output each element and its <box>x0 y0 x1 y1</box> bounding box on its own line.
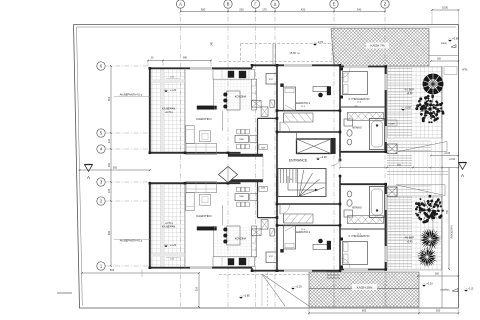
grid bubble A <box>176 0 184 8</box>
roof overhang dashed line upper <box>219 61 340 63</box>
lower kitchen top counter <box>213 257 255 267</box>
bottom hatched ramp (klisi 10%) <box>309 272 419 307</box>
grid axis 4 dash-dot line <box>106 148 150 150</box>
svg-text:200: 200 <box>239 7 244 11</box>
dashed planting strip top right <box>444 67 457 75</box>
svg-text:ΤΡΑΠ.: ΤΡΑΠ. <box>239 138 245 141</box>
upper dining table <box>235 136 249 143</box>
lower bedroom2 bed <box>284 226 296 250</box>
svg-text:κλίση: κλίση <box>441 42 447 45</box>
upper master bed <box>343 72 368 95</box>
svg-text:ΑΝ.ΒΕΡ.: ΑΝ.ΒΕΡ. <box>405 236 415 240</box>
dashed vertical at ramp <box>267 272 269 306</box>
upper bed blanket diagonal <box>285 105 294 110</box>
tree 3 (leafy clumps) lower right <box>418 204 421 207</box>
svg-text:135: 135 <box>107 188 111 193</box>
dashed service lines bottom <box>333 272 335 307</box>
svg-text:+2.20: +2.20 <box>295 284 302 288</box>
right walkway horizontal lines mid lower <box>388 185 432 187</box>
right upper small dims <box>431 155 459 157</box>
left mid dimension row <box>80 169 150 171</box>
grid axis 1 dash-dot line <box>106 265 150 267</box>
upper island stools <box>223 93 227 97</box>
lower pantry strip <box>252 226 257 257</box>
stair arrow <box>288 176 315 190</box>
svg-text:+1.20: +1.20 <box>170 244 177 247</box>
svg-text:ΚΑΘΙΣΤΙΚΟ: ΚΑΘΙΣΤΙΚΟ <box>196 214 212 218</box>
upper column blobs <box>149 67 152 70</box>
svg-text:+0.90: +0.90 <box>449 158 456 161</box>
upper kitchen island <box>227 91 240 110</box>
lower master bedroom door arc <box>340 258 350 268</box>
bottom right dim 300 row <box>418 275 459 277</box>
svg-text:170: 170 <box>262 7 267 11</box>
lower radiator label box <box>259 186 267 191</box>
grid bubble Z <box>381 0 389 8</box>
stair mid wall <box>298 182 327 184</box>
svg-text:ΚΟΥΖΙΝΑ: ΚΟΥΖΙΝΑ <box>235 237 246 241</box>
left dimension chain <box>110 66 112 266</box>
svg-text:ΔΩΜΑΤΙΟ 2: ΔΩΜΑΤΙΟ 2 <box>296 101 311 105</box>
svg-text:500: 500 <box>107 96 111 101</box>
lower tv sideboard dark bar <box>197 227 217 231</box>
grid axis Z dash-dot line <box>384 8 386 309</box>
svg-text:ΚΛ.ΒΕΡ.: ΚΛ.ΒΕΡ. <box>405 88 415 92</box>
top hatched ramp (klisi 7%) <box>331 29 429 67</box>
grid bubble 3 <box>97 178 105 186</box>
grid bubble Γ <box>251 0 259 8</box>
svg-text:ΚΛ.ΒΕΡΑΝ.: ΚΛ.ΒΕΡΑΝ. <box>162 106 176 110</box>
upper coffee table <box>200 131 211 142</box>
svg-text:ΑΠΘ.: ΑΠΘ. <box>462 69 468 72</box>
svg-text:+0.60: +0.60 <box>405 107 412 109</box>
site boundary inner line <box>77 26 457 28</box>
svg-text:Κ.ΥΠΝΟΔΩΜΑΤΙΟ: Κ.ΥΠΝΟΔΩΜΑΤΙΟ <box>349 98 370 101</box>
lower kitchen sink dark <box>228 259 234 266</box>
grid axis Δ dash-dot line <box>274 8 276 309</box>
svg-text:A: A <box>461 173 464 178</box>
upper utility x-boxes <box>252 100 261 107</box>
svg-text:ΚΑΘΙΣΤΙΚΟ: ΚΑΘΙΣΤΙΚΟ <box>196 117 212 121</box>
elevator side dark wall <box>331 138 336 154</box>
road mark outside boundary <box>57 292 72 294</box>
svg-text:B: B <box>227 2 230 7</box>
svg-text:ΚΛ.ΒΕΡΑΝ.: ΚΛ.ΒΕΡΑΝ. <box>162 225 176 229</box>
svg-text:+0.70 μ: +0.70 μ <box>165 111 174 114</box>
bottom vertical dim 310 <box>198 273 200 307</box>
svg-text:A: A <box>179 2 182 7</box>
svg-text:ΨΥΓ: ΨΥΓ <box>269 79 274 81</box>
right upper dim 300 <box>431 60 459 62</box>
upper radiator label box <box>259 145 267 150</box>
lower bathroom tub <box>370 187 385 218</box>
lower bathroom fixtures <box>344 210 353 217</box>
lower dining table <box>235 194 249 201</box>
upper kitchen top counter <box>213 70 255 80</box>
planter box with X upper <box>387 144 397 154</box>
svg-text:ΜΠΑΝΙΟ: ΜΠΑΝΙΟ <box>352 127 362 130</box>
svg-text:-0.15: -0.15 <box>468 288 474 290</box>
line below top hatch to boundary <box>429 55 459 57</box>
svg-text:ΚΛΙΣΗ 7%: ΚΛΙΣΗ 7% <box>370 44 384 48</box>
deck lines right walkway upper <box>388 68 413 70</box>
lower bedroom2 desk <box>313 244 329 249</box>
grid axis E dash-dot line <box>333 8 335 309</box>
mid strip vertical paving lines <box>389 141 391 197</box>
right vertical dim 750 <box>448 168 450 270</box>
right mid dimension row <box>340 167 459 169</box>
upper unit walls <box>149 68 151 153</box>
svg-text:ΣΩΜ: ΣΩΜ <box>261 148 266 150</box>
bottom-left dimension row 833 <box>82 272 199 274</box>
svg-text:Κ.ΥΠΝΟΔΩΜΑΤΙΟ: Κ.ΥΠΝΟΔΩΜΑΤΙΟ <box>349 235 370 238</box>
lower chaise lounge <box>186 193 194 211</box>
right top slope marker <box>449 39 452 42</box>
upper kitchen stove dark <box>239 71 246 78</box>
svg-text:E: E <box>333 2 336 7</box>
lower corridor door arc <box>280 205 290 215</box>
grid axis 3 dash-dot line <box>106 181 150 183</box>
upper chaise lounge <box>186 125 194 143</box>
upper unit windows <box>190 67 212 70</box>
svg-text:ΚΛΙΣΗ 10%: ΚΛΙΣΗ 10% <box>357 285 373 289</box>
grid axis A dash-dot line <box>180 8 182 309</box>
svg-text:310: 310 <box>195 286 199 291</box>
svg-text:Δ: Δ <box>274 2 277 7</box>
svg-text:ΜΠΑΝΙΟ: ΜΠΑΝΙΟ <box>352 207 362 210</box>
lower kitchen floor tiles <box>214 226 252 257</box>
elevator shaft <box>297 139 332 154</box>
duct double line <box>272 44 274 66</box>
grid bubble 6 <box>97 62 105 70</box>
grid bubble 4 <box>97 145 105 153</box>
svg-text:090: 090 <box>183 57 188 60</box>
roof overhang dashed line lower <box>219 274 309 276</box>
deck lines right walkway lower <box>388 196 413 198</box>
entrance hall walls <box>276 160 278 204</box>
entrance door arc <box>331 157 340 166</box>
grid axis 5 dash-dot line <box>106 132 150 134</box>
grid bubble Δ <box>271 0 279 8</box>
upper master bedroom door arc <box>340 68 350 78</box>
svg-text:+1.20: +1.20 <box>170 89 177 92</box>
lower fridge <box>266 252 277 263</box>
winder stair treads <box>299 170 304 197</box>
svg-text:1000: 1000 <box>442 6 448 10</box>
svg-text:Z: Z <box>384 2 387 7</box>
grid bubble E <box>330 0 338 8</box>
upper pantry strip <box>252 79 257 110</box>
svg-text:ΛΙΘΟΔΟΜΗ: ΛΙΘΟΔΟΜΗ <box>451 225 454 238</box>
svg-text:300: 300 <box>435 272 440 275</box>
svg-text:605: 605 <box>362 308 367 312</box>
upper bathroom fixtures <box>344 119 353 126</box>
upper bedroom2 wardrobe <box>284 113 314 122</box>
upper veranda beam bands <box>161 69 164 153</box>
svg-text:+2.20: +2.20 <box>320 155 327 159</box>
porch steps bottom <box>327 271 340 273</box>
upper sofa <box>186 144 217 155</box>
lower utility x-boxes <box>252 229 261 236</box>
bottom right entrance markers <box>423 284 426 287</box>
svg-text:750: 750 <box>446 209 449 214</box>
lower veranda beam bands <box>161 184 164 268</box>
upper bathroom tub <box>370 119 385 150</box>
tree 5 (dense starburst) bottom right <box>416 247 437 267</box>
svg-text:230: 230 <box>107 162 111 167</box>
upper fridge <box>266 74 277 85</box>
section marker A left <box>85 165 93 172</box>
site boundary outer line <box>74 25 459 309</box>
upper dining chairs <box>237 129 241 134</box>
planter box with X lower <box>387 187 397 197</box>
upper sideboard <box>250 136 257 143</box>
svg-text:+0.70 μ: +0.70 μ <box>165 222 174 225</box>
right garden paving grid upper <box>388 67 443 139</box>
lower sideboard <box>250 194 257 201</box>
top dimension line A-Z <box>181 11 386 13</box>
svg-text:833: 833 <box>110 268 115 272</box>
top-right dimension line <box>432 9 459 11</box>
dashed maintenance strip right of building lower <box>433 196 442 238</box>
right walkway horizontal lines mid upper <box>388 140 432 142</box>
tree 2 (leafy clumps) right <box>435 107 436 108</box>
bottom dimension row <box>309 312 459 314</box>
lower bedroom2 wardrobe <box>284 214 314 223</box>
lower master bed <box>343 242 368 265</box>
lower kitchen stove dark <box>239 258 246 265</box>
upper tv sideboard dark bar <box>197 106 217 110</box>
ramp wedge lower <box>396 185 445 196</box>
lower unit windows <box>190 266 212 269</box>
svg-text:380: 380 <box>201 7 206 11</box>
lower unit veranda paving <box>151 184 185 268</box>
svg-text:490: 490 <box>107 230 111 235</box>
grid axis 2 dash-dot line <box>106 200 150 202</box>
lower coffee table <box>200 194 211 205</box>
svg-text:Κ.ΒΕΡ.: Κ.ΒΕΡ. <box>388 123 395 125</box>
grid bubble 5 <box>97 129 105 137</box>
entrance walkway steps <box>387 155 412 157</box>
top hatch markers <box>314 43 317 46</box>
stone wall line (lithodomi) <box>441 66 443 308</box>
svg-text:ΑΝ.ΒΕΡΑΝΤΑ 4.0 μ: ΑΝ.ΒΕΡΑΝΤΑ 4.0 μ <box>120 93 143 97</box>
upper kitchen sink dark <box>228 71 234 78</box>
upper kitchen floor tiles <box>214 79 252 110</box>
svg-text:ΤΡΑΠ.: ΤΡΑΠ. <box>239 195 245 198</box>
svg-text:ΚΟΥΖΙΝΑ: ΚΟΥΖΙΝΑ <box>235 94 246 98</box>
grid axis B dash-dot line <box>227 8 229 309</box>
lower dining chairs <box>237 202 241 207</box>
svg-text:15.65 τ.μ.: 15.65 τ.μ. <box>289 51 300 55</box>
svg-text:ΨΥΓ: ΨΥΓ <box>269 256 274 258</box>
lower island stools <box>223 240 227 244</box>
svg-text:+1.80: +1.80 <box>243 293 250 297</box>
ramp wedge upper <box>398 142 447 152</box>
svg-text:A: A <box>87 175 90 180</box>
tree 1 (conifer ring) top right <box>425 76 440 91</box>
diamond planter between units <box>219 167 238 183</box>
grid bubble 1 <box>97 262 105 270</box>
section marker A right <box>459 163 467 170</box>
tree 4 (dense starburst) lower right <box>420 228 442 250</box>
svg-text:300: 300 <box>436 308 441 312</box>
svg-text:300: 300 <box>437 58 442 61</box>
upper corridor door arc <box>280 122 290 132</box>
grid axis 6 dash-dot line <box>106 65 150 67</box>
grid axis Γ dash-dot line <box>255 8 257 309</box>
svg-text:+0.10: +0.10 <box>426 281 433 285</box>
ramp triangle bottom middle <box>262 274 309 306</box>
lower sofa <box>186 182 217 193</box>
upper bedroom2 desk <box>313 87 329 92</box>
lower unit walls <box>149 183 151 268</box>
svg-text:420: 420 <box>301 7 306 11</box>
staircase outline <box>278 169 326 197</box>
grid bubble B <box>224 0 232 8</box>
lower column blobs <box>149 266 152 269</box>
walkway long lines <box>387 171 448 173</box>
lower bed blanket diagonal <box>285 226 294 231</box>
straight stair treads <box>280 169 282 184</box>
svg-text:+0.05: +0.05 <box>444 152 451 155</box>
grid bubble 2 <box>97 197 105 205</box>
svg-text:340: 340 <box>357 7 362 11</box>
svg-text:500: 500 <box>113 166 118 169</box>
svg-text:ΑΝ.ΒΕΡΑΝΤΑ 4.0 μ: ΑΝ.ΒΕΡΑΝΤΑ 4.0 μ <box>120 238 143 242</box>
small top-left dimension row <box>148 60 211 62</box>
svg-text:+0.60: +0.60 <box>406 92 413 95</box>
svg-text:+0.45: +0.45 <box>406 240 413 243</box>
svg-text:ΣΩΜ: ΣΩΜ <box>261 187 266 189</box>
upper bedroom2 bed <box>284 87 296 111</box>
upper unit veranda paving <box>151 69 185 153</box>
right garden paving grid lower <box>388 196 443 270</box>
svg-text:ENTRANCE: ENTRANCE <box>289 158 308 162</box>
svg-text:+0.60: +0.60 <box>452 36 459 40</box>
svg-text:120: 120 <box>107 138 111 143</box>
lower kitchen island <box>227 226 240 245</box>
